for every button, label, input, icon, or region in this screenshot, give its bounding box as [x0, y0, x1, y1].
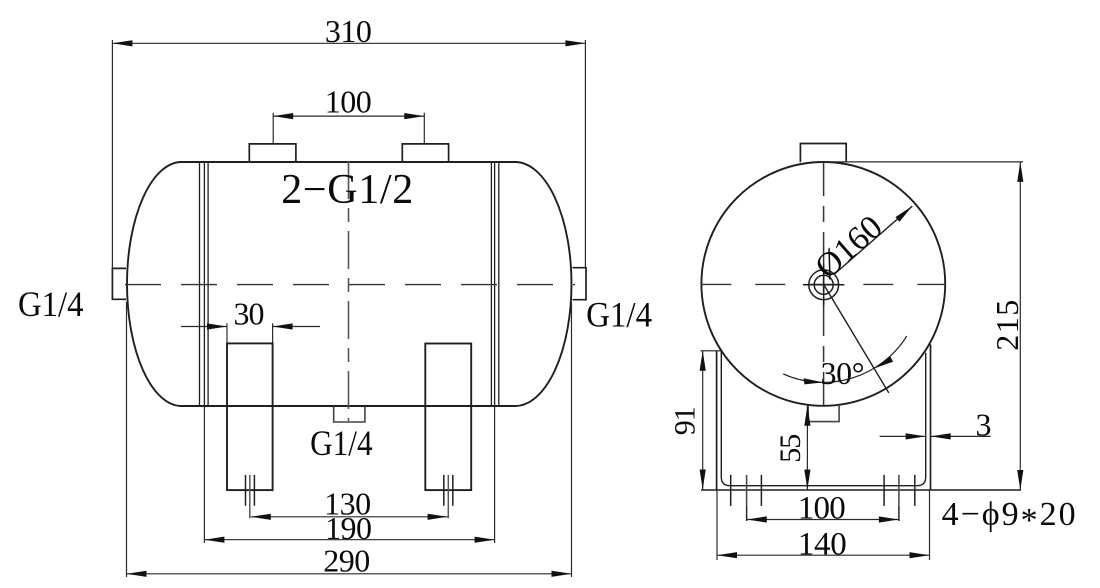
- bracket outer right wall: [930, 344, 932, 490]
- right leg slot hole hidden lines: [444, 475, 453, 518]
- dim 3 arrows: [906, 433, 926, 439]
- dim 190 line: [204, 539, 494, 541]
- svg-text:190: 190: [325, 510, 372, 546]
- dim 3 leader left: [880, 435, 926, 437]
- bracket top edge left: [701, 350, 722, 352]
- arrowheads front view: [112, 40, 585, 577]
- bracket outer left wall: [716, 351, 718, 490]
- dim 30 extension lines: [226, 323, 228, 343]
- top port nozzle (side view): [800, 144, 846, 163]
- horizontal centerline (side view): [701, 283, 945, 285]
- horizontal centerline (front view): [125, 284, 575, 286]
- dim 130 arrows: [251, 514, 271, 520]
- svg-text:3: 3: [976, 407, 992, 443]
- center port inner circle: [814, 275, 833, 294]
- center cross marks: [803, 264, 844, 305]
- bottom port G1/4: [334, 407, 365, 423]
- svg-text:310: 310: [325, 13, 372, 49]
- arc arrow at 30deg line: [874, 356, 893, 368]
- dim 290 extension lines: [126, 302, 128, 577]
- bracket inner profile: [721, 351, 925, 486]
- dim 310 line: [112, 42, 585, 44]
- diameter arrowhead: [895, 206, 912, 222]
- svg-text:100: 100: [325, 84, 372, 120]
- arc arrow at centerline: [804, 378, 824, 384]
- dim 91 arrows: [700, 351, 706, 371]
- right end port G1/4: [573, 268, 587, 300]
- bottom port nozzle (side view): [808, 406, 839, 422]
- left leg: [227, 343, 273, 490]
- dim 30 leader lines: [181, 326, 227, 328]
- dim 100 line: [273, 115, 424, 117]
- 30 degree dimension arc: [783, 336, 907, 382]
- dim 100 arrows (side): [747, 516, 767, 522]
- svg-text:100: 100: [798, 491, 846, 527]
- dim 215 arrows: [1017, 162, 1023, 182]
- dim 100 arrows: [273, 113, 293, 119]
- svg-text:G1/4: G1/4: [18, 284, 84, 324]
- dim 140 arrows: [717, 552, 737, 558]
- svg-text:2−G1/2: 2−G1/2: [281, 167, 413, 213]
- svg-text:215: 215: [989, 300, 1025, 351]
- center port outer circle: [809, 270, 839, 300]
- dim 290 line: [127, 573, 572, 575]
- dim 100 extension lines: [746, 506, 748, 521]
- dim 190 extension lines: [203, 406, 205, 543]
- svg-text:290: 290: [323, 542, 370, 578]
- svg-text:140: 140: [798, 527, 847, 563]
- weld seam lines left: [200, 162, 209, 406]
- top port nozzle right (G1/2): [402, 144, 448, 162]
- weld seam lines right: [491, 162, 498, 406]
- dim 3 leader right: [931, 435, 991, 437]
- dim 55 line: [806, 406, 808, 490]
- diameter leader line O160: [834, 206, 913, 275]
- svg-text:30°: 30°: [821, 355, 865, 391]
- dim 91 line: [702, 351, 704, 490]
- dim 310 extension lines: [111, 40, 113, 268]
- top port nozzle left (G1/2): [249, 144, 296, 162]
- dim 215 line: [1019, 162, 1021, 490]
- bolt slot ticks left: [731, 475, 762, 521]
- svg-text:4−ϕ9*20: 4−ϕ9*20: [942, 496, 1078, 539]
- dim 55 arrows: [804, 406, 810, 426]
- svg-text:55: 55: [774, 434, 807, 463]
- left leg slot hole hidden lines: [246, 475, 255, 518]
- svg-text:30: 30: [234, 295, 265, 331]
- dim 100 extension lines: [272, 113, 274, 144]
- svg-text:G1/4: G1/4: [586, 295, 652, 335]
- dim 30 arrows: [207, 323, 227, 329]
- svg-text:Ø160: Ø160: [808, 208, 889, 286]
- svg-text:91: 91: [669, 406, 702, 435]
- bolt slot ticks right: [884, 475, 915, 521]
- arrowheads side view: [700, 162, 1024, 558]
- bracket / ground bottom line: [701, 489, 1021, 491]
- right leg: [425, 344, 471, 491]
- left end port G1/4: [112, 268, 126, 299]
- dim 310 arrows: [112, 40, 132, 46]
- 30 degree radial line: [823, 284, 889, 393]
- vertical centerline (side view): [823, 162, 825, 406]
- dim 140 extension lines: [716, 490, 718, 560]
- bracket (side view saddle): [701, 344, 1022, 490]
- tank shell outline (front view): [127, 162, 571, 406]
- dim 215 extension top: [824, 161, 1023, 163]
- svg-text:G1/4: G1/4: [310, 423, 373, 463]
- tank end circle (side view): [701, 162, 945, 406]
- dim 190 arrows: [204, 537, 224, 543]
- dim 290 arrows: [127, 571, 147, 577]
- dim 140 line: [717, 554, 930, 556]
- dim 100 line (side): [747, 519, 899, 521]
- vertical centerline (front view): [348, 161, 350, 421]
- dim 130 line: [251, 516, 448, 518]
